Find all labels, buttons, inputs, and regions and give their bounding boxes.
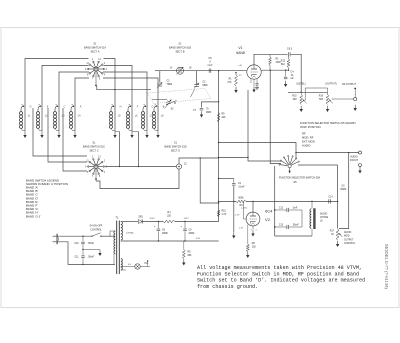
junction bus 157 bbox=[218, 157, 219, 158]
svg-text:-1.4V: -1.4V bbox=[234, 215, 240, 217]
svg-text:.05MF: .05MF bbox=[340, 189, 347, 191]
svg-text:100V: 100V bbox=[149, 218, 155, 220]
wire attenuator bbox=[288, 91, 328, 93]
svg-text:CONTROL: CONTROL bbox=[90, 229, 102, 232]
junction attenuator bbox=[301, 92, 302, 93]
wire S1A to coil L6 bbox=[104, 66, 133, 132]
ground C4 wire bbox=[232, 232, 235, 238]
svg-text:from chassis ground.: from chassis ground. bbox=[197, 284, 258, 290]
svg-text:3: 3 bbox=[250, 230, 251, 232]
svg-text:G: G bbox=[30, 106, 32, 109]
svg-text:20MF: 20MF bbox=[162, 233, 168, 235]
wire bus 157 bbox=[219, 157, 249, 158]
wire C4 top bbox=[219, 178, 234, 180]
rectifier SR1 bbox=[138, 217, 143, 224]
ground V1 cathode bbox=[252, 86, 255, 92]
svg-text:R17: R17 bbox=[330, 231, 335, 233]
ground R13 bbox=[300, 106, 303, 112]
wire C7 link bbox=[202, 101, 220, 107]
capacitor C5 bbox=[208, 57, 213, 73]
switch S4 label bbox=[90, 225, 103, 232]
svg-text:FUNCTION SELECTOR SWITCH S5A: FUNCTION SELECTOR SWITCH S5A bbox=[279, 177, 321, 180]
coil L1 bbox=[19, 104, 31, 138]
capacitor C12 bbox=[275, 207, 302, 212]
wire wafer left drop bbox=[274, 166, 276, 236]
jack 1C bbox=[176, 164, 187, 170]
svg-text:1C: 1C bbox=[184, 164, 187, 166]
trimmer C3 bbox=[191, 82, 209, 98]
wire fil2 stub bbox=[121, 269, 126, 271]
wire S1A to coil L2 bbox=[42, 66, 89, 132]
transformer T1 label bbox=[115, 216, 119, 220]
svg-text:BAND SWITCH S1B: BAND SWITCH S1B bbox=[169, 47, 191, 50]
svg-text:C6 5: C6 5 bbox=[287, 48, 293, 51]
ground R5 bbox=[182, 259, 185, 265]
svg-text:OUTPUT: OUTPUT bbox=[344, 239, 354, 241]
svg-text:C10: C10 bbox=[74, 243, 79, 245]
wire wiper link bbox=[305, 88, 327, 101]
rotary switch S1C bbox=[85, 157, 108, 178]
AC plug bbox=[53, 234, 59, 244]
wire audio drop bbox=[339, 153, 349, 229]
svg-text:BAND ‘G-1’: BAND ‘G-1’ bbox=[26, 214, 41, 218]
svg-text:MMF: MMF bbox=[203, 85, 209, 87]
ground RF jack bbox=[354, 105, 357, 111]
wire 1C branch down bbox=[200, 157, 220, 203]
switch S1 wafer C label bbox=[83, 142, 105, 153]
wire wafer right bbox=[298, 164, 338, 166]
ground C7 bbox=[200, 111, 203, 117]
ground R14 bbox=[326, 106, 329, 112]
svg-text:FUNCTION SELECTOR SWITCH S5 SH: FUNCTION SELECTOR SWITCH S5 SHOWN bbox=[300, 121, 356, 125]
wire S1C to jack 1C bbox=[105, 166, 176, 168]
svg-text:900K: 900K bbox=[238, 198, 244, 200]
capacitor C4a bbox=[284, 70, 295, 80]
wire grid bus bbox=[155, 70, 247, 72]
wire S1A to coil L3 bbox=[59, 72, 89, 132]
audio output control label bbox=[344, 231, 356, 245]
wire V2 cathode bbox=[250, 226, 256, 232]
wire fil to lamp bbox=[121, 266, 135, 268]
svg-text:PL1: PL1 bbox=[145, 263, 150, 265]
junction bus 142 bbox=[218, 142, 219, 143]
wire C10 C11 ground bbox=[83, 249, 100, 251]
wire audio bus bbox=[218, 201, 338, 202]
svg-text:V2: V2 bbox=[265, 217, 271, 222]
wire tap to S1C a bbox=[33, 108, 87, 156]
resistor R4 bbox=[163, 212, 175, 223]
svg-text:22K: 22K bbox=[222, 117, 227, 119]
wire S1A to coil L7 bbox=[103, 72, 147, 132]
junction heater bbox=[158, 240, 186, 241]
junction C13 bbox=[274, 226, 275, 227]
wire B+ bus bbox=[218, 71, 220, 222]
svg-text:TRIM.: TRIM. bbox=[167, 84, 174, 86]
junction C11 bbox=[82, 249, 83, 265]
capacitor C6b bbox=[328, 186, 346, 204]
junction choke top bbox=[311, 201, 312, 202]
V2 voltage labels bbox=[234, 208, 247, 230]
audio jack label bbox=[350, 156, 359, 163]
svg-text:1B: 1B bbox=[189, 68, 192, 70]
svg-text:6C4: 6C4 bbox=[265, 209, 273, 214]
capacitor C9 bbox=[180, 221, 194, 241]
capacitor C10 bbox=[74, 236, 94, 249]
coil L3 bbox=[53, 104, 65, 138]
trimmer C8a bbox=[152, 99, 172, 108]
resistor R12 bbox=[281, 56, 290, 70]
svg-text:MMF: MMF bbox=[206, 112, 212, 114]
junction plate bbox=[285, 70, 289, 71]
rotary switch S1A bbox=[85, 59, 108, 80]
potentiometer R17 bbox=[330, 229, 343, 240]
svg-text:SECT. B: SECT. B bbox=[175, 51, 184, 54]
wire lamp right bbox=[140, 260, 150, 266]
svg-text:Function Selector Switch in MO: Function Selector Switch in MOD, RF posi… bbox=[197, 271, 359, 277]
wire wafer drop right bbox=[337, 165, 338, 229]
svg-text:(LEVEL): (LEVEL) bbox=[296, 83, 305, 86]
svg-text:2mF: 2mF bbox=[293, 207, 298, 209]
wire L6 tap to S1C bbox=[132, 132, 139, 168]
tube V1 label bbox=[236, 46, 245, 55]
svg-text:AUDIO: AUDIO bbox=[344, 231, 351, 234]
wire C1 to trimmer C2 bbox=[159, 71, 161, 83]
wire V1 plate top bbox=[254, 54, 288, 65]
wire 1C down bbox=[96, 169, 179, 188]
function selector legend bbox=[300, 121, 356, 148]
svg-text:1.3V: 1.3V bbox=[239, 228, 244, 230]
svg-text:C14: C14 bbox=[328, 196, 333, 198]
wire C6 to attenuator bbox=[291, 54, 301, 93]
switch S1 wafer B label bbox=[169, 43, 191, 54]
wire tap to S1C c bbox=[63, 108, 87, 171]
svg-text:RF: RF bbox=[302, 131, 306, 135]
capacitor C4 grid bbox=[232, 179, 245, 189]
svg-text:R16: R16 bbox=[319, 96, 324, 98]
svg-text:V1: V1 bbox=[238, 46, 242, 50]
tube V2 bbox=[246, 212, 260, 226]
wire plug bottom bbox=[59, 242, 116, 265]
wire S1A rotor out bbox=[97, 86, 151, 90]
svg-text:(+105): (+105) bbox=[241, 208, 248, 210]
transformer T1 secondary fil1 bbox=[121, 259, 122, 270]
svg-text:MOD. RF: MOD. RF bbox=[302, 135, 314, 139]
capacitor C6 bbox=[287, 48, 293, 57]
resistor R8 bbox=[236, 198, 246, 208]
coil L2 bbox=[36, 104, 48, 138]
svg-text:IN/OUT: IN/OUT bbox=[350, 159, 359, 162]
svg-text:S4 ON-OFF: S4 ON-OFF bbox=[90, 225, 103, 228]
wire v1 cath down bbox=[248, 90, 281, 161]
transformer T1 primary bbox=[110, 231, 115, 264]
svg-text:BAND SWITCH S1C: BAND SWITCH S1C bbox=[83, 146, 105, 149]
selector switch S5A bbox=[279, 155, 299, 173]
svg-text:.01mF: .01mF bbox=[238, 187, 245, 189]
function selector S5A label bbox=[279, 177, 321, 185]
wire plug top bbox=[59, 235, 92, 237]
wire C4 down bbox=[233, 186, 234, 232]
ground C4a bbox=[284, 81, 287, 87]
svg-text:SR1: SR1 bbox=[138, 217, 143, 219]
svg-text:R12: R12 bbox=[281, 61, 286, 63]
ground C10 C11 bbox=[98, 250, 101, 256]
wire V2 grid bbox=[244, 201, 247, 219]
RF output jack bbox=[354, 88, 357, 101]
wire V1 plate right bbox=[261, 69, 288, 71]
wire audio bottom bbox=[275, 235, 312, 237]
ground V2 cathode bbox=[251, 230, 254, 236]
switch S1 wafer A label bbox=[84, 43, 106, 54]
wire HV top bbox=[123, 221, 138, 223]
svg-text:D: D bbox=[152, 106, 154, 109]
svg-text:-2V: -2V bbox=[238, 75, 242, 77]
audio choke L9 bbox=[310, 201, 329, 236]
svg-text:BAND SWITCH S1A: BAND SWITCH S1A bbox=[84, 47, 106, 50]
wire B+ to bus bbox=[175, 218, 219, 221]
svg-text:.05mF: .05mF bbox=[88, 243, 95, 245]
junction V2 plate bbox=[252, 201, 253, 202]
svg-text:C: C bbox=[64, 106, 66, 109]
wire tap to S1C b bbox=[48, 108, 87, 162]
svg-text:All voltage measurements taken: All voltage measurements taken with Prec… bbox=[197, 265, 362, 271]
tube V1 bbox=[247, 65, 261, 79]
coil L6 bbox=[126, 104, 138, 138]
resistor R5 bbox=[182, 241, 192, 259]
svg-text:6AN8: 6AN8 bbox=[236, 51, 245, 55]
svg-text:Switch set to Band ‘D’. Indic: Switch set to Band ‘D’. Indicated voltag… bbox=[197, 278, 365, 284]
capacitor C7 bbox=[193, 108, 212, 113]
audio jack lower bbox=[359, 164, 362, 169]
coil L4 bbox=[69, 104, 81, 138]
svg-text:RF OUTPUT: RF OUTPUT bbox=[342, 83, 356, 86]
svg-text:27K: 27K bbox=[227, 82, 232, 84]
potentiometer R13 bbox=[292, 92, 306, 104]
junction C10 bbox=[82, 236, 83, 237]
svg-text:1K: 1K bbox=[331, 234, 334, 236]
svg-text:SECT. D: SECT. D bbox=[171, 150, 180, 153]
transformer T1 secondary fil2 bbox=[120, 240, 122, 242]
svg-text:1A: 1A bbox=[170, 67, 173, 70]
wire S1A to coil L8 bbox=[103, 78, 158, 132]
svg-text:AUDIO: AUDIO bbox=[320, 213, 327, 216]
svg-text:MODEL E-77 (7-61159): MODEL E-77 (7-61159) bbox=[384, 244, 389, 289]
pilot lamp PL1 bbox=[128, 263, 149, 269]
wire choke link bbox=[301, 210, 303, 227]
audio jack terminal bbox=[359, 151, 362, 154]
transformer T1 secondary HV bbox=[121, 222, 135, 240]
resistor R10 bbox=[217, 210, 226, 217]
ground R7 bbox=[246, 252, 249, 258]
tube V1 cathode pins bbox=[251, 79, 259, 86]
svg-text:.05mF: .05mF bbox=[88, 257, 95, 259]
capacitor C13 bbox=[275, 224, 302, 229]
svg-text:(OUTPUT): (OUTPUT) bbox=[325, 83, 337, 86]
svg-text:SECT. C: SECT. C bbox=[89, 150, 98, 153]
wire audio jack bbox=[296, 152, 358, 153]
ground V1 pin bbox=[255, 85, 259, 90]
wire S1A to coil L4 bbox=[75, 78, 89, 132]
wire 1C up bbox=[179, 158, 219, 164]
svg-text:EXT. MOD.: EXT. MOD. bbox=[302, 139, 316, 143]
junction C12 bbox=[274, 209, 275, 210]
ground R17 bbox=[336, 241, 339, 247]
wire L5 tap to S1C bbox=[115, 132, 120, 168]
svg-text:C13: C13 bbox=[279, 224, 284, 226]
coil L5 bbox=[109, 104, 121, 138]
svg-text:S5: S5 bbox=[293, 180, 297, 184]
model number text bbox=[384, 244, 389, 289]
gang linkage bbox=[148, 89, 212, 104]
wire S1A to coil L1 bbox=[25, 59, 89, 132]
coil L7 bbox=[141, 104, 153, 138]
resistor R7 bbox=[246, 225, 256, 252]
svg-text:CHOKE: CHOKE bbox=[320, 217, 329, 219]
resistor R9 bbox=[217, 113, 226, 123]
svg-text:20MF: 20MF bbox=[189, 233, 195, 235]
switch S2 bbox=[166, 101, 176, 111]
resistor R2 bbox=[269, 54, 282, 70]
wire heater line bbox=[121, 238, 219, 241]
wire V2 plate bbox=[252, 201, 254, 212]
svg-text:BAND SWITCH S1D: BAND SWITCH S1D bbox=[164, 146, 186, 149]
svg-text:H: H bbox=[120, 106, 122, 109]
wire switch to primary bbox=[101, 235, 115, 237]
svg-text:AUDIO: AUDIO bbox=[302, 143, 311, 147]
svg-text:125VAC: 125VAC bbox=[126, 232, 134, 235]
svg-text:.05mF: .05mF bbox=[292, 224, 299, 226]
svg-text:IN RF POSITION: IN RF POSITION bbox=[300, 125, 321, 129]
switch S4 bbox=[91, 233, 101, 237]
svg-text:MOD.: MOD. bbox=[344, 236, 350, 238]
junction audio bottom bbox=[274, 209, 275, 227]
ground R1 bbox=[234, 87, 237, 93]
svg-text:CONTROL: CONTROL bbox=[344, 243, 356, 245]
voltage note text bbox=[197, 265, 365, 290]
coil L8 bbox=[152, 104, 164, 138]
rotor stub S1C bbox=[95, 169, 97, 181]
ground audio jack bbox=[358, 167, 361, 173]
junction C4 bbox=[218, 178, 219, 179]
switch S1 wafer D label bbox=[164, 142, 186, 153]
transformer T1 core bbox=[117, 221, 120, 275]
wire pot2 to jack bbox=[332, 98, 354, 100]
svg-text:51K: 51K bbox=[281, 64, 286, 66]
svg-text:4: 4 bbox=[255, 230, 256, 232]
tuning capacitor C1 bbox=[170, 67, 192, 75]
wire trimmer C3 stub bbox=[196, 71, 198, 85]
svg-text:6.3V: 6.3V bbox=[196, 238, 201, 240]
resistor R1 grid leak bbox=[227, 72, 237, 86]
V1 voltage labels bbox=[238, 65, 242, 77]
wire r2 down bbox=[270, 70, 282, 164]
svg-text:mF: mF bbox=[290, 78, 294, 80]
rotor stub S1A bbox=[95, 72, 97, 87]
potentiometer R14 bbox=[319, 92, 333, 104]
svg-text:SECT. A: SECT. A bbox=[91, 51, 100, 54]
svg-text:R10: R10 bbox=[222, 211, 227, 213]
svg-text:4.7K: 4.7K bbox=[222, 214, 227, 216]
capacitor C11 bbox=[74, 250, 94, 265]
attenuator labels bbox=[296, 83, 356, 87]
tube V2 label bbox=[265, 209, 273, 223]
svg-text:C12: C12 bbox=[279, 207, 284, 209]
wire bus to wafer bbox=[219, 143, 297, 159]
wire S1A to coil L5 bbox=[104, 59, 116, 132]
trimmer C2 bbox=[157, 81, 173, 89]
svg-text:R15: R15 bbox=[292, 96, 297, 98]
svg-text:135V: 135V bbox=[183, 218, 189, 220]
wire after diode bbox=[142, 218, 163, 221]
junction bus top bbox=[218, 70, 219, 71]
capacitor C8 bbox=[154, 221, 168, 241]
band switch legend text bbox=[26, 178, 68, 218]
svg-text:mmf: mmf bbox=[208, 64, 213, 67]
